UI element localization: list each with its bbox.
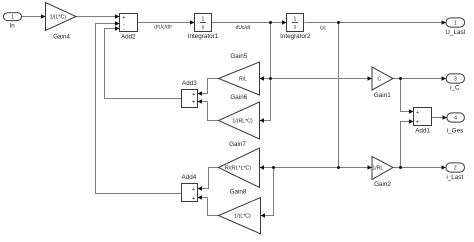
svg-text:1/RL: 1/RL xyxy=(372,166,383,172)
svg-text:+: + xyxy=(122,15,125,21)
svg-text:1: 1 xyxy=(294,17,297,23)
svg-text:3: 3 xyxy=(454,77,457,83)
svg-text:R/(RL*L*C): R/(RL*L*C) xyxy=(225,166,251,172)
svg-text:Gain4: Gain4 xyxy=(53,33,70,40)
svg-text:i_C: i_C xyxy=(450,85,460,92)
svg-text:Gain5: Gain5 xyxy=(230,53,247,60)
svg-text:C: C xyxy=(377,76,381,82)
svg-text:i_Last: i_Last xyxy=(446,174,463,181)
svg-text:d²Uc/dt²: d²Uc/dt² xyxy=(154,25,172,31)
svg-text:4: 4 xyxy=(454,116,457,122)
svg-text:R/L: R/L xyxy=(239,76,247,82)
svg-text:Integrator2: Integrator2 xyxy=(280,33,311,40)
svg-text:Add2: Add2 xyxy=(121,34,136,41)
svg-text:Gain6: Gain6 xyxy=(230,94,247,101)
svg-text:+: + xyxy=(192,196,195,202)
svg-text:Gain7: Gain7 xyxy=(229,141,246,148)
svg-text:Gain2: Gain2 xyxy=(374,181,391,188)
svg-text:1: 1 xyxy=(11,15,14,21)
svg-text:1/(L*C): 1/(L*C) xyxy=(50,14,67,20)
svg-text:Integrator1: Integrator1 xyxy=(188,33,219,40)
svg-text:i_Ges: i_Ges xyxy=(447,128,463,135)
svg-text:+: + xyxy=(416,110,419,116)
svg-text:1/(RL*C): 1/(RL*C) xyxy=(232,119,252,125)
svg-text:1/(L*C): 1/(L*C) xyxy=(234,214,251,220)
svg-text:+: + xyxy=(192,187,195,193)
svg-text:2: 2 xyxy=(454,166,457,172)
svg-text:s: s xyxy=(294,25,297,31)
svg-text:+: + xyxy=(416,119,419,125)
svg-text:Add4: Add4 xyxy=(182,174,197,181)
svg-text:1: 1 xyxy=(454,20,457,26)
svg-text:U_Last: U_Last xyxy=(445,29,465,36)
svg-text:+: + xyxy=(192,100,195,106)
svg-text:Add1: Add1 xyxy=(415,128,430,135)
svg-text:1: 1 xyxy=(201,17,204,23)
svg-text:In: In xyxy=(10,22,16,29)
svg-text:Gain1: Gain1 xyxy=(374,92,391,99)
svg-text:+: + xyxy=(192,92,195,98)
svg-text:Gain8: Gain8 xyxy=(230,189,247,196)
svg-text:dUc/dt: dUc/dt xyxy=(236,25,251,31)
svg-text:-: - xyxy=(123,27,125,33)
svg-text:Add3: Add3 xyxy=(182,80,197,87)
svg-text:Uc: Uc xyxy=(320,26,327,32)
svg-text:s: s xyxy=(202,25,205,31)
